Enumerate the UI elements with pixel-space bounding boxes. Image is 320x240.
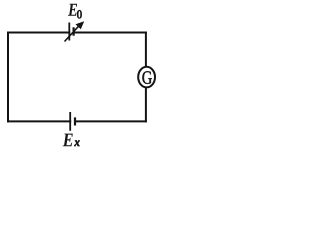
label Ex subscript x (74, 141, 79, 147)
battery E0 long plate (68, 23, 70, 41)
wire: right wire upper segment (to galvanometer) (145, 33, 147, 67)
battery Ex short plate (74, 117, 76, 125)
wire: right wire lower segment (from galvanometer) (145, 88, 147, 121)
galvanometer G (138, 67, 155, 88)
wire: bottom-left segment of bottom wire (8, 120, 70, 122)
variable-source arrow over E0 (65, 21, 85, 41)
label Ex letter E (63, 134, 73, 147)
wire: bottom-right segment of bottom wire (75, 120, 146, 122)
wire: top-left segment of top wire (8, 32, 69, 34)
wire: top-right segment of top wire (74, 32, 146, 34)
battery Ex long plate (69, 112, 71, 131)
wire: left wire (7, 33, 9, 122)
battery E0 short plate (72, 27, 74, 35)
label E0 letter E (68, 4, 77, 16)
label E0 subscript 0 (77, 10, 81, 18)
